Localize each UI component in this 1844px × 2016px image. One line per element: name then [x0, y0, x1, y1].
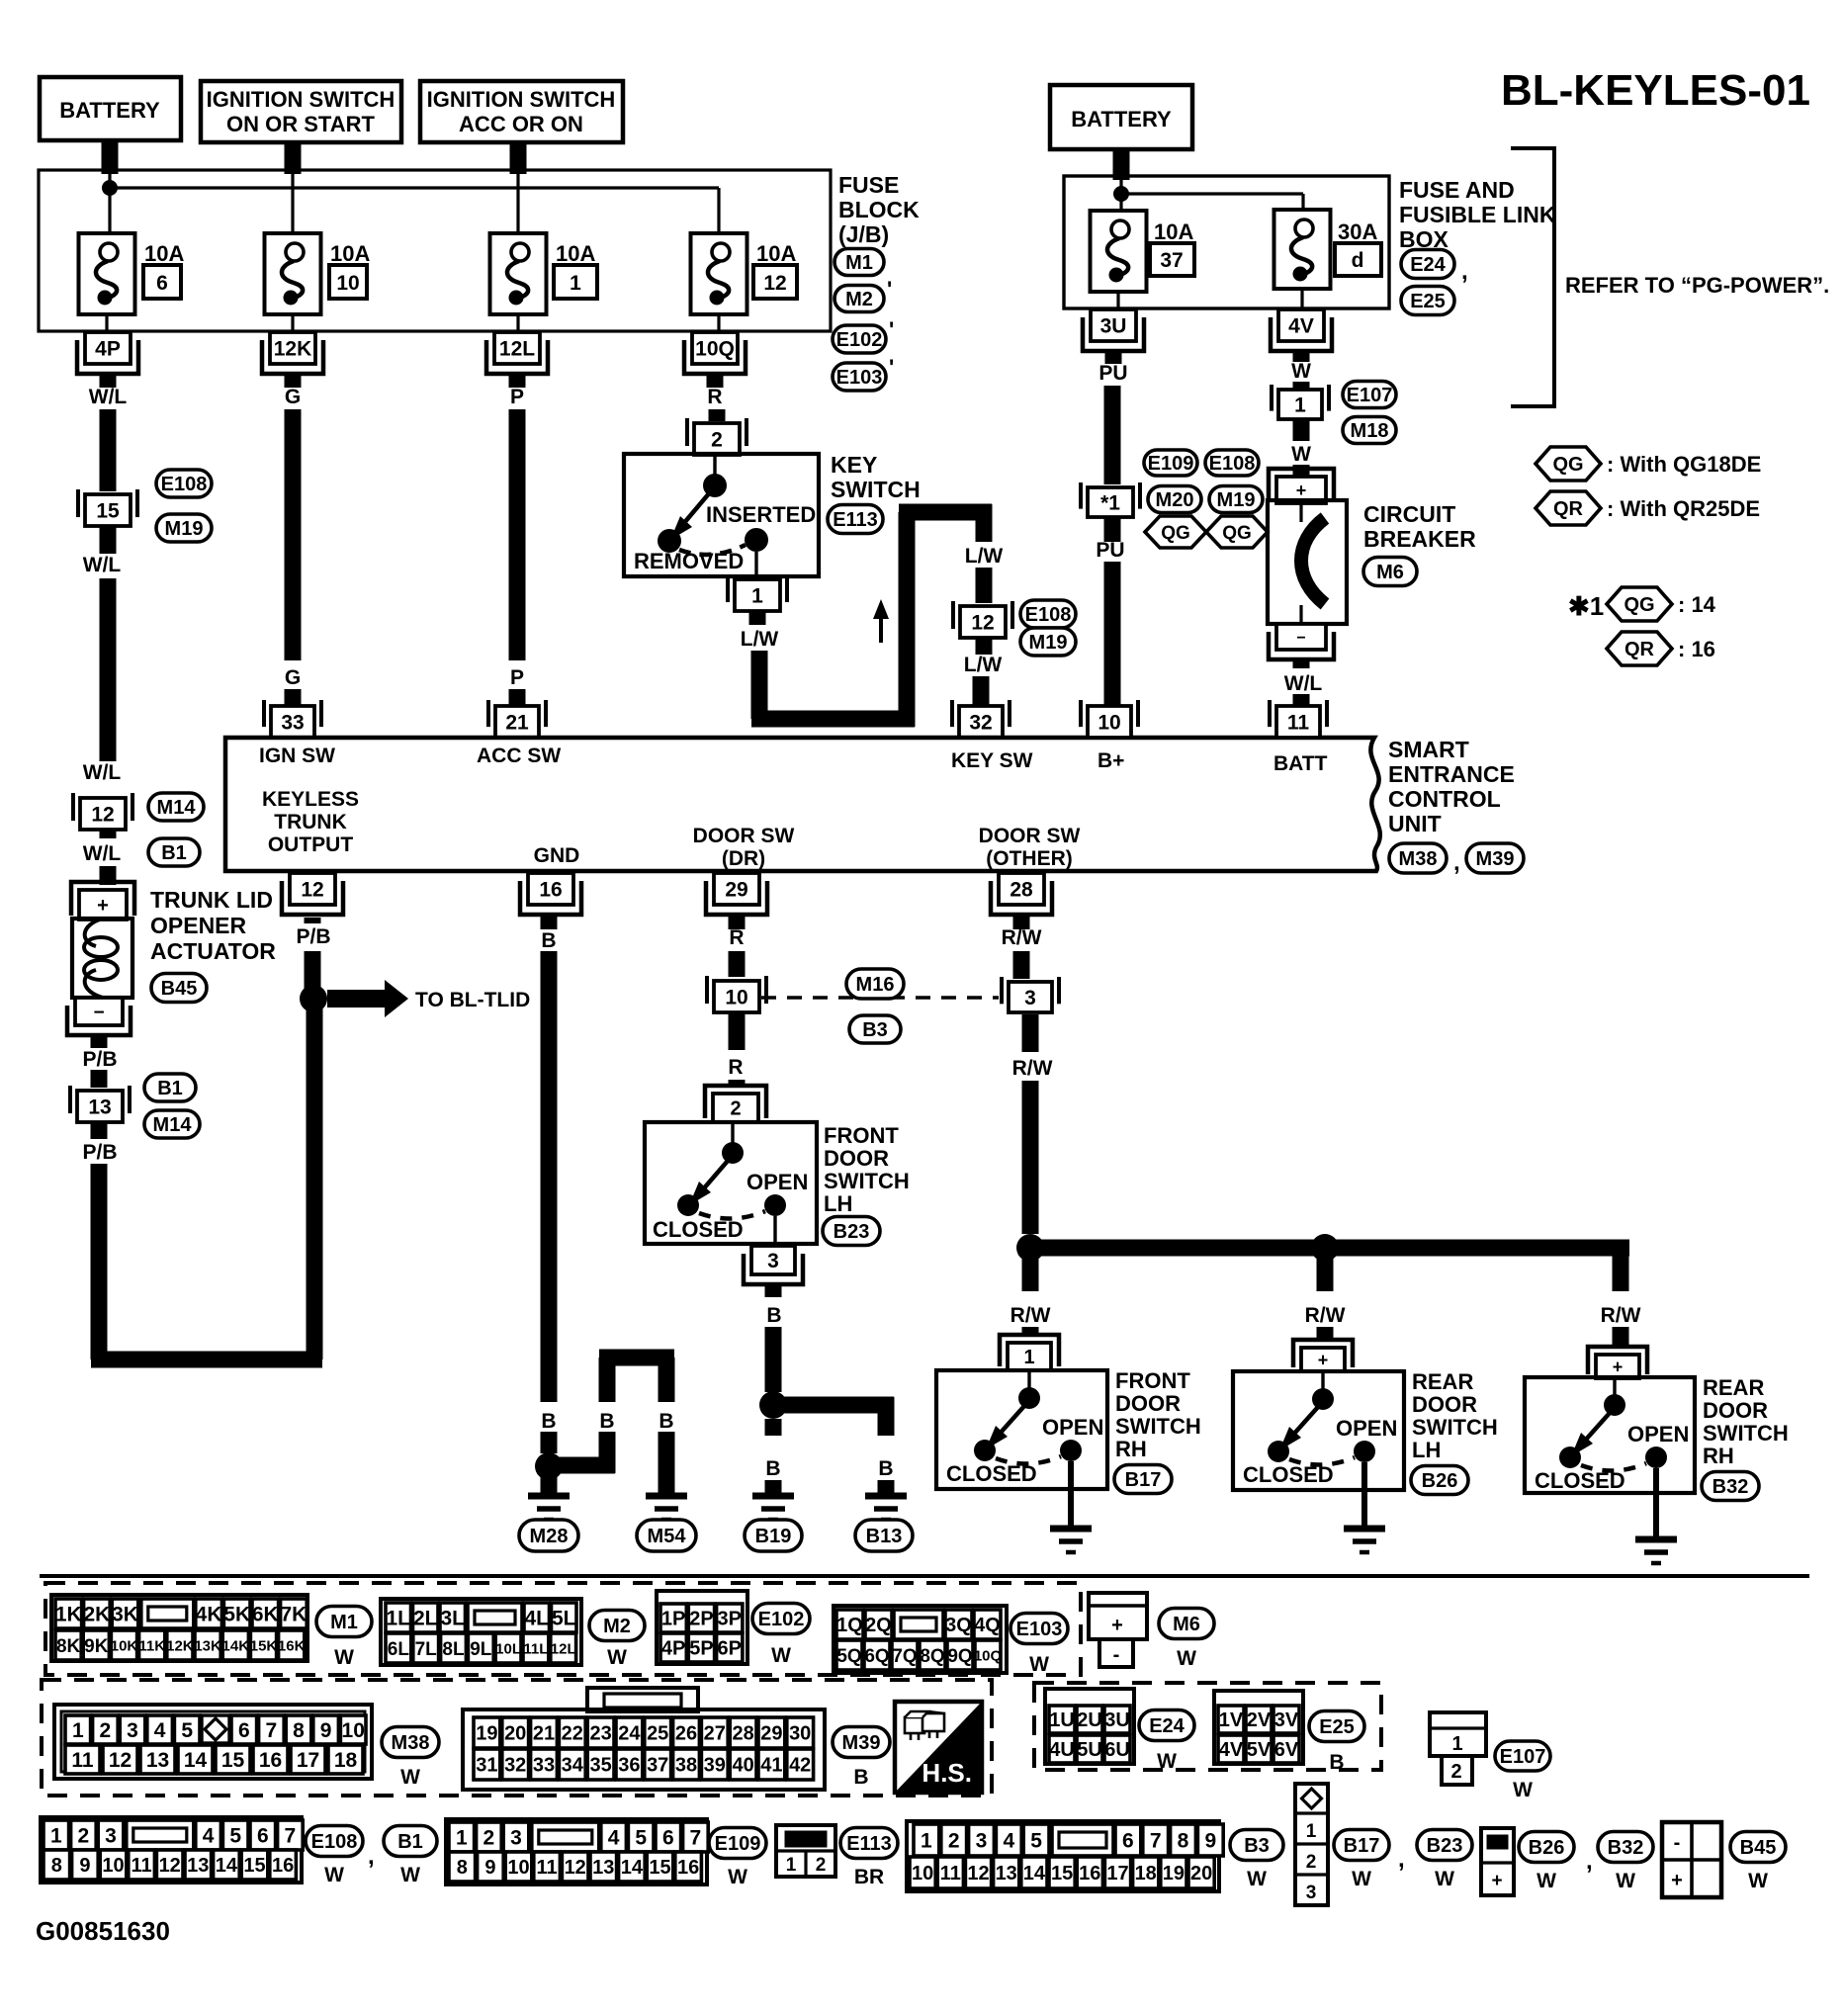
- svg-text:B: B: [541, 929, 556, 952]
- svg-text:3: 3: [510, 1827, 522, 1850]
- svg-text:REFER TO “PG-POWER”.: REFER TO “PG-POWER”.: [1565, 273, 1829, 298]
- svg-text:10: 10: [1098, 712, 1120, 735]
- dashed wire to connector 3: [761, 996, 999, 1000]
- svg-text:38: 38: [675, 1755, 697, 1777]
- wire fuse 10 to 12K: [291, 314, 294, 332]
- wire G: [285, 409, 302, 660]
- svg-text:12: 12: [967, 1863, 989, 1885]
- junction dot R/W bus 2: [1311, 1234, 1339, 1262]
- svg-text:DOOR: DOOR: [1703, 1398, 1768, 1423]
- svg-text:2U: 2U: [1077, 1709, 1102, 1731]
- svg-text:P/B: P/B: [82, 1141, 117, 1164]
- svg-text:5P: 5P: [689, 1638, 713, 1660]
- svg-text:11L: 11L: [523, 1640, 548, 1657]
- svg-text:7Q: 7Q: [892, 1646, 917, 1667]
- wire bus to fuse d: [1121, 192, 1303, 195]
- connector ref M19: [156, 514, 212, 542]
- wire P: [509, 409, 526, 660]
- connector 28 DOOR SW OTHER: [999, 873, 1044, 905]
- wire R/W from DOOR SW OTHER: [1013, 915, 1030, 929]
- trunk lid opener actuator minus terminal: [75, 998, 123, 1025]
- svg-text:P: P: [510, 386, 524, 408]
- svg-text:BL-KEYLES-01: BL-KEYLES-01: [1501, 66, 1810, 115]
- svg-text:2: 2: [816, 1855, 827, 1876]
- svg-text:RH: RH: [1115, 1437, 1147, 1461]
- connector 3 M16/B3: [1009, 982, 1052, 1012]
- svg-text:CLOSED: CLOSED: [1243, 1462, 1334, 1487]
- svg-text:KEY: KEY: [831, 452, 877, 478]
- key switch dashed arc: [679, 545, 746, 555]
- svg-text:13: 13: [88, 1096, 111, 1119]
- svg-text:2: 2: [730, 1098, 741, 1120]
- svg-text:REMOVED: REMOVED: [634, 549, 744, 573]
- svg-text:5: 5: [1030, 1830, 1042, 1853]
- svg-text:W: W: [771, 1644, 791, 1667]
- front door switch LH common wire: [731, 1124, 734, 1145]
- svg-text:PU: PU: [1096, 539, 1124, 562]
- svg-text:(J/B): (J/B): [838, 221, 889, 247]
- svg-text:OPEN: OPEN: [1627, 1422, 1689, 1446]
- svg-text:7: 7: [1150, 1830, 1162, 1853]
- svg-text:2V: 2V: [1247, 1709, 1272, 1731]
- connector ref E25: [1401, 287, 1454, 315]
- connector grid E25 1V-6V: [1214, 1691, 1303, 1764]
- circuit breaker minus terminal: [1276, 624, 1326, 650]
- svg-text:P/B: P/B: [82, 1048, 117, 1071]
- svg-text:19: 19: [476, 1723, 497, 1745]
- wire stub above 33: [285, 689, 302, 708]
- refer to PG-POWER bracket: [1511, 148, 1554, 406]
- wire fuse 6 to 4P: [105, 314, 108, 332]
- svg-text:14K: 14K: [222, 1637, 250, 1654]
- wire B inverted-U to M54: [549, 1457, 615, 1474]
- connector ref B3: [1230, 1830, 1283, 1861]
- svg-text:B: B: [878, 1457, 893, 1480]
- svg-text:SWITCH: SWITCH: [1703, 1421, 1789, 1446]
- wire W/L to actuator: [100, 830, 117, 838]
- svg-text:IGNITION SWITCH: IGNITION SWITCH: [207, 87, 395, 112]
- connector ref M39: [833, 1727, 890, 1758]
- svg-text:SMART: SMART: [1388, 737, 1469, 762]
- svg-text:10: 10: [342, 1719, 365, 1742]
- svg-text:W: W: [400, 1864, 420, 1886]
- svg-text:14: 14: [184, 1749, 208, 1772]
- svg-text:REAR: REAR: [1703, 1375, 1764, 1400]
- svg-text:W/L: W/L: [1284, 672, 1323, 695]
- connector 1 front door switch RH: [1000, 1335, 1059, 1366]
- svg-text:1: 1: [1451, 1733, 1462, 1755]
- svg-text:16: 16: [677, 1857, 699, 1879]
- wire fusible d to 4V: [1300, 289, 1303, 309]
- svg-text:1: 1: [50, 1825, 62, 1848]
- svg-text:27: 27: [704, 1723, 726, 1745]
- svg-text:(OTHER): (OTHER): [986, 847, 1073, 870]
- svg-text:9: 9: [320, 1719, 332, 1742]
- key switch common contact: [703, 474, 727, 497]
- svg-text:−: −: [93, 1003, 104, 1023]
- wire PU down to *1: [1104, 386, 1121, 484]
- svg-text:E103: E103: [1016, 1619, 1063, 1640]
- svg-text:B32: B32: [1712, 1476, 1749, 1498]
- svg-text:1K: 1K: [55, 1604, 82, 1626]
- svg-text:4: 4: [154, 1719, 166, 1742]
- svg-text:6L: 6L: [388, 1639, 410, 1660]
- svg-text:BATT: BATT: [1273, 752, 1328, 775]
- svg-text:B: B: [766, 1304, 781, 1327]
- connector 13: [77, 1091, 123, 1122]
- svg-text:15K: 15K: [250, 1637, 278, 1654]
- svg-text:W/L: W/L: [83, 554, 122, 576]
- svg-text:M39: M39: [842, 1732, 881, 1754]
- ground symbol B13: [865, 1493, 907, 1500]
- svg-text:GND: GND: [534, 844, 580, 867]
- svg-text:16K: 16K: [278, 1637, 306, 1654]
- svg-text:QG: QG: [1624, 594, 1654, 616]
- wire to B19 ground: [765, 1419, 782, 1436]
- svg-text:9Q: 9Q: [947, 1646, 972, 1667]
- svg-text:B1: B1: [161, 842, 187, 864]
- rear door switch RH box: [1525, 1377, 1695, 1493]
- connector ref M19: [1020, 628, 1076, 656]
- svg-text:29: 29: [725, 879, 747, 902]
- svg-text:,: ,: [1586, 1848, 1593, 1875]
- svg-text:B1: B1: [157, 1078, 183, 1099]
- svg-text:4P: 4P: [95, 338, 121, 361]
- connector 21 ACC SW: [495, 706, 539, 738]
- svg-text:35: 35: [589, 1755, 611, 1777]
- svg-text:E24: E24: [1149, 1715, 1185, 1737]
- fuse and fusible link box outline: [1064, 176, 1389, 308]
- svg-text:+: +: [1296, 481, 1307, 500]
- svg-text:30A: 30A: [1338, 219, 1377, 244]
- svg-text:d: d: [1352, 249, 1364, 272]
- wire bus to fuse 12: [110, 186, 719, 189]
- svg-text:': ': [887, 277, 892, 302]
- connector grid E103 1Q-10Q: [834, 1606, 1007, 1673]
- connector ref E109: [1144, 450, 1197, 476]
- svg-text:E108: E108: [161, 474, 208, 495]
- connector ref E108: [1205, 450, 1259, 476]
- svg-text:FUSIBLE LINK: FUSIBLE LINK: [1399, 202, 1556, 227]
- connector ref M54: [637, 1520, 696, 1551]
- wire stub below breaker: [1293, 660, 1310, 668]
- R/W bus horizontal: [1030, 1240, 1629, 1257]
- front door switch LH arrow: [703, 1161, 728, 1189]
- connector M6 symbol: [1089, 1593, 1147, 1639]
- connector ref E25: [1309, 1711, 1364, 1742]
- svg-text:31: 31: [476, 1755, 497, 1777]
- svg-text:CIRCUIT: CIRCUIT: [1363, 501, 1455, 527]
- svg-text:2: 2: [1450, 1761, 1461, 1783]
- svg-text:16: 16: [1079, 1863, 1100, 1885]
- svg-text:B26: B26: [1529, 1837, 1565, 1859]
- svg-text:DOOR: DOOR: [1412, 1392, 1477, 1417]
- svg-text:CONTROL: CONTROL: [1388, 786, 1501, 812]
- wire ign to fuse 10: [291, 174, 294, 233]
- connector ref M19: [1209, 486, 1263, 513]
- svg-text:1: 1: [72, 1719, 84, 1742]
- svg-text:6Q: 6Q: [864, 1646, 889, 1667]
- wire R from DOOR SW DR: [729, 915, 746, 929]
- svg-text:E108: E108: [1209, 453, 1256, 475]
- svg-text:1U: 1U: [1049, 1709, 1075, 1731]
- svg-text:39: 39: [704, 1755, 726, 1777]
- wire P/B from keyless trunk output: [305, 918, 321, 923]
- connector 33 IGN SW: [271, 706, 314, 738]
- svg-text:QG: QG: [1222, 523, 1252, 544]
- circuit breaker plus terminal: [1269, 469, 1334, 499]
- connector 12 M14: [80, 798, 126, 830]
- svg-text:B3: B3: [862, 1019, 888, 1041]
- svg-text:37: 37: [1160, 249, 1183, 272]
- svg-text:1L: 1L: [386, 1608, 410, 1630]
- connector ref M16: [846, 969, 904, 999]
- front door switch LH contact CLOSED: [677, 1194, 699, 1216]
- connector E107 pinout: [1430, 1712, 1486, 1756]
- svg-text:R: R: [729, 926, 744, 949]
- svg-text:E107: E107: [1500, 1746, 1546, 1768]
- legend hexagon QR: [1536, 491, 1601, 525]
- svg-text:1: 1: [786, 1855, 797, 1876]
- svg-text:W: W: [1435, 1868, 1454, 1890]
- svg-text:M14: M14: [153, 1114, 193, 1136]
- connector + rear door switch LH: [1293, 1340, 1353, 1367]
- wire stub below 12L: [509, 374, 526, 388]
- wire acc to fuse 1: [516, 174, 519, 233]
- connector 4P: [85, 332, 131, 364]
- svg-text:11: 11: [1287, 712, 1310, 735]
- svg-text:ACC SW: ACC SW: [477, 745, 561, 767]
- svg-text:SWITCH: SWITCH: [824, 1169, 910, 1193]
- svg-text:10: 10: [336, 272, 359, 295]
- ground symbol M28: [528, 1493, 570, 1500]
- svg-text:3P: 3P: [718, 1609, 742, 1630]
- svg-text:2: 2: [78, 1825, 90, 1848]
- svg-text:2K: 2K: [83, 1604, 110, 1626]
- svg-text:36: 36: [618, 1755, 640, 1777]
- svg-text:10A: 10A: [330, 241, 370, 266]
- svg-text:E25: E25: [1319, 1716, 1355, 1738]
- svg-text:FRONT: FRONT: [1115, 1368, 1190, 1393]
- junction dot door switch grounds: [759, 1391, 787, 1419]
- svg-text:W: W: [728, 1866, 747, 1888]
- svg-text:R: R: [707, 386, 722, 408]
- svg-text:DOOR SW: DOOR SW: [979, 825, 1081, 847]
- svg-text:B45: B45: [161, 978, 198, 1000]
- svg-text:B13: B13: [866, 1526, 903, 1547]
- svg-text:SWITCH: SWITCH: [831, 477, 921, 502]
- svg-text:B19: B19: [755, 1526, 792, 1547]
- svg-text:8: 8: [457, 1857, 468, 1879]
- svg-text:M2: M2: [603, 1616, 631, 1637]
- svg-text:2Q: 2Q: [865, 1615, 892, 1636]
- svg-text:B23: B23: [1427, 1835, 1463, 1857]
- svg-text:+: +: [1318, 1350, 1329, 1369]
- connector ref B45: [1730, 1832, 1786, 1863]
- svg-text:10: 10: [102, 1855, 124, 1877]
- wire B from GND: [541, 915, 558, 929]
- svg-text:E113: E113: [846, 1833, 892, 1855]
- wire fuse 37 to 3U: [1116, 292, 1119, 309]
- svg-text:4P: 4P: [661, 1638, 685, 1660]
- wire stub below actuator: [91, 1035, 108, 1048]
- svg-text:15: 15: [1051, 1863, 1073, 1885]
- svg-text:4: 4: [608, 1827, 620, 1850]
- wire P/B down-left leg: [91, 1122, 108, 1139]
- wire P/B up to junction: [307, 999, 323, 1359]
- svg-text:4Q: 4Q: [974, 1615, 1001, 1636]
- svg-text:M19: M19: [165, 518, 204, 540]
- svg-text:28: 28: [1010, 879, 1033, 902]
- svg-text:W: W: [1029, 1653, 1049, 1676]
- svg-text:IGNITION SWITCH: IGNITION SWITCH: [427, 87, 616, 112]
- svg-text:12: 12: [159, 1855, 181, 1877]
- connector ref B23: [823, 1217, 880, 1246]
- svg-text:BR: BR: [854, 1866, 884, 1888]
- svg-text:FUSE AND: FUSE AND: [1399, 177, 1515, 203]
- svg-text:FUSE: FUSE: [838, 172, 899, 198]
- svg-text:2L: 2L: [413, 1608, 438, 1630]
- svg-text:L/W: L/W: [965, 545, 1004, 568]
- svg-text:: With QR25DE: : With QR25DE: [1607, 496, 1760, 521]
- svg-text:10: 10: [912, 1863, 933, 1885]
- svg-text:2: 2: [483, 1827, 495, 1850]
- svg-text:SWITCH: SWITCH: [1412, 1415, 1498, 1440]
- svg-text:6P: 6P: [718, 1638, 742, 1660]
- connector ref M38: [382, 1727, 439, 1758]
- junction dot TO BL-TLID: [300, 985, 327, 1012]
- svg-text:20: 20: [504, 1723, 526, 1745]
- svg-text:5: 5: [635, 1827, 647, 1850]
- junction dot battery feed: [102, 180, 118, 196]
- wire battery to fuse block: [102, 140, 119, 174]
- svg-text:10L: 10L: [495, 1640, 521, 1657]
- front door switch LH box: [645, 1122, 817, 1244]
- connector 32 KEY SW: [959, 706, 1003, 738]
- wire fuse 1 to 12L: [516, 314, 519, 332]
- svg-text:PU: PU: [1098, 362, 1127, 385]
- svg-text:6U: 6U: [1104, 1739, 1130, 1761]
- connector ref M14: [148, 793, 204, 821]
- svg-text:8K: 8K: [56, 1636, 81, 1657]
- svg-text:✱1: ✱1: [1568, 591, 1604, 621]
- svg-text:−: −: [1296, 630, 1305, 647]
- svg-text:M28: M28: [530, 1526, 569, 1547]
- connector ref M18: [1343, 417, 1396, 444]
- svg-text:: 16: : 16: [1678, 637, 1715, 661]
- fuse block J/B outline: [39, 170, 831, 331]
- svg-text:5U: 5U: [1077, 1739, 1102, 1761]
- svg-text:QR: QR: [1553, 498, 1584, 520]
- svg-text:M6: M6: [1173, 1614, 1200, 1635]
- connector ref B1: [144, 1074, 196, 1101]
- svg-text:W: W: [1177, 1647, 1196, 1670]
- svg-text:M2: M2: [845, 289, 873, 310]
- svg-text:10: 10: [725, 987, 747, 1009]
- svg-text:9: 9: [79, 1855, 90, 1877]
- svg-text:BREAKER: BREAKER: [1363, 526, 1476, 552]
- svg-text:3: 3: [105, 1825, 117, 1848]
- svg-text:6: 6: [662, 1827, 674, 1850]
- front door switch RH box: [936, 1370, 1107, 1489]
- svg-text:7: 7: [285, 1825, 297, 1848]
- svg-text:21: 21: [505, 712, 529, 735]
- svg-text:M18: M18: [1351, 420, 1389, 442]
- wire stub below 10Q: [707, 374, 724, 388]
- svg-text:E108: E108: [311, 1831, 358, 1853]
- svg-text:-: -: [1674, 1832, 1681, 1854]
- svg-text:5: 5: [229, 1825, 241, 1848]
- svg-text:10K: 10K: [111, 1637, 138, 1654]
- svg-text:H.S.: H.S.: [922, 1758, 972, 1788]
- svg-text:10A: 10A: [556, 241, 595, 266]
- legend *1 QR hexagon: [1607, 632, 1672, 665]
- svg-text:W: W: [1291, 443, 1311, 466]
- wire stub below 3U: [1105, 351, 1122, 364]
- svg-text:E102: E102: [758, 1609, 805, 1630]
- trunk lid opener actuator plus terminal: [71, 882, 134, 916]
- svg-text:4: 4: [1003, 1830, 1014, 1853]
- svg-text:B26: B26: [1422, 1470, 1458, 1492]
- wire stub above 21: [509, 689, 526, 708]
- svg-text:12L: 12L: [499, 338, 535, 361]
- junction dot fusible feed: [1113, 186, 1129, 202]
- svg-text:12L: 12L: [551, 1640, 576, 1657]
- svg-text:12: 12: [763, 272, 786, 295]
- svg-text:12: 12: [565, 1857, 586, 1879]
- wire W/L to connector 15: [100, 409, 117, 491]
- svg-text:B23: B23: [834, 1221, 870, 1243]
- svg-text:L/W: L/W: [741, 628, 779, 651]
- svg-text:30: 30: [789, 1723, 811, 1745]
- connector 1 E107: [1278, 390, 1322, 419]
- svg-text:*1: *1: [1100, 492, 1120, 515]
- svg-text:QR: QR: [1624, 639, 1655, 660]
- svg-text:E113: E113: [833, 509, 878, 531]
- wire to B13 ground: [773, 1397, 894, 1414]
- svg-text:ACC OR ON: ACC OR ON: [459, 112, 583, 136]
- svg-text:INSERTED: INSERTED: [706, 502, 816, 527]
- connector 12 KEYLESS TRUNK OUTPUT: [290, 873, 335, 905]
- svg-text:6V: 6V: [1274, 1739, 1299, 1761]
- svg-text:3U: 3U: [1100, 315, 1127, 338]
- battery B1 box (left): [40, 77, 181, 140]
- svg-text:20: 20: [1190, 1863, 1212, 1885]
- fuse 1 10A: [490, 233, 547, 314]
- key switch contact REMOVED: [658, 529, 681, 553]
- svg-text:: With QG18DE: : With QG18DE: [1607, 452, 1761, 477]
- arrow up beside L/W wire: [879, 615, 883, 643]
- svg-text:P: P: [510, 666, 524, 689]
- connector ref E108: [306, 1826, 363, 1857]
- svg-text:6: 6: [1122, 1830, 1134, 1853]
- svg-text:KEYLESS: KEYLESS: [262, 788, 359, 811]
- svg-text:CLOSED: CLOSED: [653, 1217, 744, 1242]
- svg-text:(DR): (DR): [722, 847, 765, 870]
- key switch box: [624, 454, 819, 576]
- legend *1 QG hexagon: [1607, 587, 1672, 621]
- wire to connector 13: [91, 1070, 108, 1088]
- svg-text:B32: B32: [1608, 1837, 1644, 1859]
- svg-text:W: W: [1748, 1870, 1768, 1892]
- connector ref B17: [1334, 1830, 1389, 1861]
- svg-text:B45: B45: [1740, 1837, 1777, 1859]
- svg-text:11K: 11K: [138, 1637, 165, 1654]
- svg-text:DOOR SW: DOOR SW: [693, 825, 795, 847]
- ignition switch ON/START box: [201, 81, 401, 142]
- svg-text:E25: E25: [1410, 291, 1446, 312]
- connector ref E113: [828, 505, 883, 534]
